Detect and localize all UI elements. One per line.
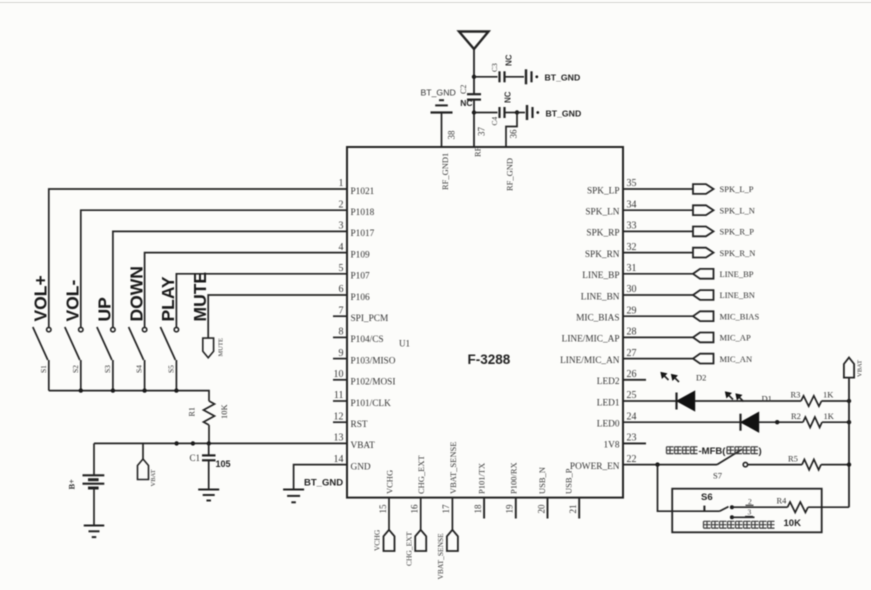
wire pin 3 to switch S3	[113, 231, 347, 327]
net tag pin 17	[447, 530, 458, 551]
LED D2	[623, 400, 677, 402]
capacitor C2	[467, 93, 481, 95]
svg-text:DOWN: DOWN	[126, 266, 146, 321]
switch S2 with button label VOL-	[79, 327, 83, 331]
svg-text:S3: S3	[103, 365, 112, 373]
bus junction	[79, 388, 83, 392]
svg-text:P101/CLK: P101/CLK	[351, 399, 392, 409]
svg-text:BT_GND: BT_GND	[421, 88, 456, 98]
svg-text:P102/MOSI: P102/MOSI	[351, 378, 396, 388]
input tag LINE_BN	[693, 290, 714, 300]
svg-text:MIC_AN: MIC_AN	[720, 354, 753, 364]
switch S3 with button label UP	[111, 327, 115, 331]
wire pin 30	[623, 294, 693, 296]
wire pin 6 to MUTE tag	[208, 295, 347, 338]
svg-text:): )	[759, 446, 762, 457]
svg-text:P1017: P1017	[351, 229, 375, 239]
svg-text:9: 9	[339, 348, 344, 359]
svg-text:S1: S1	[39, 365, 48, 373]
svg-text:5: 5	[339, 263, 344, 274]
svg-text:27: 27	[627, 348, 637, 359]
wire pin 17 to tag	[451, 498, 453, 530]
svg-text:R4: R4	[777, 496, 788, 506]
wire pin 14 to BT_GND	[294, 465, 347, 490]
wire pin 32	[623, 252, 693, 254]
wire pin 2 to switch S2	[81, 210, 347, 327]
svg-text:CHG_EXT: CHG_EXT	[404, 531, 413, 566]
svg-text:1K: 1K	[823, 390, 834, 400]
svg-text:18: 18	[473, 504, 483, 514]
wire R4 to VBAT rail	[808, 506, 849, 508]
wire R3 to VBAT rail	[822, 400, 850, 402]
resistor R1	[204, 401, 215, 425]
switch S6	[703, 506, 705, 512]
wire R2 to VBAT rail	[822, 421, 849, 423]
wire S7 to R5	[748, 464, 802, 466]
svg-text:R1: R1	[188, 407, 197, 416]
junction node pin36 branch	[515, 110, 519, 114]
svg-text:S5: S5	[166, 365, 175, 373]
input tag LINE_BP	[693, 269, 714, 279]
svg-text:MIC_BIAS: MIC_BIAS	[720, 311, 760, 321]
svg-text:BT_GND: BT_GND	[546, 108, 582, 118]
output tag SPK_L_P	[693, 184, 714, 194]
svg-text:P104/CS: P104/CS	[351, 335, 384, 345]
svg-text:22: 22	[627, 454, 637, 465]
svg-text:SPK_LN: SPK_LN	[585, 208, 619, 218]
svg-text:105: 105	[216, 459, 231, 469]
S6 throw 3	[730, 515, 734, 519]
capacitor C4	[474, 112, 498, 114]
svg-text:36: 36	[509, 129, 519, 139]
capacitor C3	[474, 76, 498, 78]
S6 throw 2	[730, 505, 734, 509]
ground below C1	[198, 489, 219, 491]
svg-text:MIC_BIAS: MIC_BIAS	[576, 314, 619, 324]
svg-text:17: 17	[441, 504, 451, 514]
svg-text:4: 4	[339, 242, 344, 253]
resistor R2	[803, 417, 822, 427]
output tag SPK_L_N	[693, 205, 714, 215]
svg-text:NC: NC	[460, 98, 472, 108]
svg-text:LED2: LED2	[597, 377, 620, 387]
svg-text:10: 10	[334, 369, 344, 380]
wire D2 to R3	[695, 400, 802, 402]
svg-text:VCHG: VCHG	[385, 470, 395, 494]
VBAT rail wire	[848, 378, 850, 508]
svg-text:C4: C4	[490, 116, 499, 125]
net tag VBAT left	[142, 443, 144, 459]
wire pin 13 VBAT bus	[94, 442, 347, 444]
svg-text:PLAY: PLAY	[158, 276, 178, 321]
resistor R5	[802, 459, 821, 469]
wire pin 33	[623, 230, 693, 232]
svg-text:S4: S4	[135, 365, 144, 373]
switch S1 with button label VOL+	[47, 327, 51, 331]
svg-text:SPI_PCM: SPI_PCM	[351, 314, 389, 324]
wire R5 to VBAT rail	[821, 464, 849, 466]
svg-text:35: 35	[627, 178, 637, 189]
svg-text:C2: C2	[459, 85, 468, 94]
svg-text:D1: D1	[762, 394, 772, 404]
ground below battery	[84, 525, 105, 527]
svg-text:23: 23	[627, 433, 637, 444]
svg-text:VBAT: VBAT	[351, 441, 376, 451]
antenna	[459, 32, 489, 50]
svg-text:LINE_BP: LINE_BP	[582, 271, 619, 281]
resistor R4	[788, 502, 809, 512]
wire stub pin 9	[333, 358, 347, 360]
svg-text:8: 8	[339, 327, 344, 338]
net tag pin 16	[415, 530, 426, 551]
input tag MIC_AN	[693, 354, 714, 364]
svg-text:LINE_BN: LINE_BN	[720, 290, 755, 300]
svg-text:LINE/MIC_AN: LINE/MIC_AN	[560, 356, 620, 366]
wire pin 28	[623, 336, 693, 338]
battery B+	[83, 474, 105, 476]
wire pin 36 jog	[506, 113, 517, 148]
input tag MIC_BIAS	[693, 311, 714, 321]
wire stub pin 12	[333, 421, 347, 423]
svg-text:P1021: P1021	[351, 187, 375, 197]
svg-text:P100/RX: P100/RX	[508, 462, 518, 494]
svg-text:P107: P107	[351, 272, 370, 282]
switch common bus wire	[49, 391, 209, 401]
svg-text:3: 3	[339, 221, 344, 232]
input tag MIC_AP	[693, 333, 714, 343]
svg-text:1V8: 1V8	[603, 441, 619, 451]
svg-text:SPK_R_P: SPK_R_P	[720, 227, 755, 237]
svg-text:P106: P106	[351, 293, 370, 303]
svg-text:14: 14	[334, 454, 344, 465]
svg-text:2: 2	[339, 199, 344, 210]
svg-text:USB_P: USB_P	[564, 468, 574, 494]
svg-text:F-3288: F-3288	[468, 352, 511, 367]
wire pin 22 POWER_EN	[623, 464, 717, 466]
svg-text:LINE_BP: LINE_BP	[720, 269, 754, 279]
IC U1 F-3288 body	[347, 147, 623, 498]
svg-text:RF_GND1: RF_GND1	[440, 153, 450, 190]
net tag pin 15	[384, 530, 395, 551]
svg-text:R2: R2	[791, 411, 801, 421]
wire pin 15 to tag	[388, 498, 390, 530]
svg-text:SPK_L_N: SPK_L_N	[720, 205, 755, 215]
switch S7 pushbutton	[717, 449, 742, 464]
svg-text:USB_N: USB_N	[537, 467, 547, 494]
svg-text:13: 13	[334, 433, 344, 444]
svg-text:30: 30	[627, 284, 637, 295]
svg-text:VBAT: VBAT	[150, 469, 157, 486]
svg-text:SPK_L_P: SPK_L_P	[720, 184, 754, 194]
wire stub pin 18	[483, 498, 485, 519]
svg-text:P1018: P1018	[351, 208, 375, 218]
wire pin 35	[623, 188, 693, 190]
wire pin 27	[623, 358, 693, 360]
svg-text:7: 7	[339, 305, 344, 316]
wire stub pin 20	[547, 498, 549, 519]
svg-text:BT_GND: BT_GND	[545, 73, 581, 83]
svg-text:10K: 10K	[219, 404, 229, 420]
svg-text:15: 15	[378, 504, 388, 514]
wire pin 4 to switch S4	[145, 253, 347, 328]
svg-text:VBAT_SENSE: VBAT_SENSE	[448, 442, 458, 494]
svg-text:11: 11	[334, 390, 344, 401]
junction antenna node	[472, 75, 476, 79]
svg-text:24: 24	[627, 411, 637, 422]
svg-text:26: 26	[627, 369, 637, 380]
svg-text:P109: P109	[351, 250, 370, 260]
wire pin22 down to S6	[658, 465, 720, 512]
svg-text:3: 3	[748, 508, 752, 517]
svg-text:S6: S6	[701, 492, 713, 503]
power symbol BT_GND top row2	[526, 105, 528, 120]
wire pin 16 to tag	[420, 498, 422, 530]
svg-text:SPK_LP: SPK_LP	[587, 186, 620, 196]
svg-text:VOL-: VOL-	[63, 280, 83, 322]
svg-text:NC: NC	[505, 54, 514, 66]
wire pin 1 to switch S1	[49, 189, 347, 327]
svg-text:6: 6	[339, 284, 344, 295]
svg-text:U1: U1	[399, 339, 410, 349]
svg-text:38: 38	[447, 130, 457, 140]
wire pin 29	[623, 315, 693, 317]
svg-text:VBAT: VBAT	[857, 360, 864, 377]
resistor R3	[801, 396, 822, 406]
junction dots on VBAT bus	[174, 441, 178, 445]
svg-text:LINE/MIC_AP: LINE/MIC_AP	[562, 335, 620, 345]
svg-text:RF: RF	[473, 146, 483, 157]
svg-text:POWER_EN: POWER_EN	[570, 462, 620, 472]
svg-text:19: 19	[505, 504, 515, 514]
svg-text:21: 21	[568, 505, 578, 514]
svg-text:S7: S7	[713, 471, 722, 481]
net tag MUTE	[203, 338, 214, 358]
svg-text:VCHG: VCHG	[373, 529, 382, 551]
ground BT_GND at pin 14	[283, 489, 304, 491]
svg-text:VOL+: VOL+	[31, 275, 51, 321]
svg-text:31: 31	[627, 263, 637, 274]
svg-text:29: 29	[627, 305, 637, 316]
battery branch corner	[93, 443, 95, 475]
svg-text:CHG_EXT: CHG_EXT	[416, 454, 426, 494]
svg-text:37: 37	[477, 127, 487, 137]
svg-text:-MFB(: -MFB(	[699, 446, 727, 457]
svg-text:SPK_RN: SPK_RN	[585, 250, 620, 260]
bus junction	[111, 388, 115, 392]
wire stub pin 26 LED2	[623, 379, 646, 381]
wire stub pin 10	[333, 379, 347, 381]
output tag SPK_R_P	[693, 227, 714, 237]
wire stub pin 8	[333, 336, 347, 338]
capacitor C1	[202, 454, 216, 456]
svg-text:MUTE: MUTE	[218, 338, 225, 356]
svg-text:20: 20	[536, 504, 546, 514]
svg-text:SPK_RP: SPK_RP	[586, 229, 619, 239]
svg-text:RST: RST	[351, 420, 368, 430]
svg-text:R5: R5	[788, 454, 798, 464]
dashed box S6 circuit	[672, 489, 822, 533]
svg-text:2: 2	[748, 497, 752, 506]
svg-text:R3: R3	[791, 390, 801, 400]
svg-text:P101/TX: P101/TX	[477, 463, 487, 494]
svg-text:LED1: LED1	[597, 398, 620, 408]
svg-text:12: 12	[334, 411, 344, 422]
svg-text:C3: C3	[490, 63, 499, 72]
svg-text:P103/MISO: P103/MISO	[351, 356, 396, 366]
svg-text:S2: S2	[71, 365, 80, 373]
top faint border line	[0, 2, 871, 4]
svg-text:1: 1	[339, 178, 344, 189]
bus junction	[174, 388, 178, 392]
svg-text:MUTE: MUTE	[190, 272, 210, 322]
svg-text:SPK_R_N: SPK_R_N	[720, 248, 756, 258]
switch S4 with button label DOWN	[142, 327, 146, 331]
svg-text:34: 34	[627, 199, 637, 210]
svg-text:GND: GND	[351, 462, 371, 472]
svg-text:MIC_AP: MIC_AP	[720, 333, 751, 343]
wire pin 5 to switch S5	[176, 274, 347, 328]
LED D1	[623, 421, 741, 423]
wire pin 31	[623, 273, 693, 275]
wire stub pin 23 1V8	[623, 442, 646, 444]
svg-text:28: 28	[627, 327, 637, 338]
svg-text:33: 33	[627, 221, 637, 232]
svg-text:D2: D2	[696, 373, 706, 383]
net tag VBAT right	[844, 358, 854, 378]
bus junction	[142, 388, 146, 392]
svg-text:1K: 1K	[824, 411, 835, 421]
svg-text:BT_GND: BT_GND	[304, 478, 343, 489]
switch S5 with button label PLAY	[174, 327, 178, 331]
label key-power-on MFB	[667, 447, 674, 454]
svg-text:B+: B+	[67, 479, 77, 490]
svg-text:UP: UP	[95, 297, 115, 322]
wire stub pin 19	[515, 498, 517, 519]
wire stub pin 21	[578, 498, 580, 519]
wire stub pin 7	[333, 315, 347, 317]
svg-text:16: 16	[410, 504, 420, 514]
wire pin 34	[623, 209, 693, 211]
wire stub pin 11	[333, 400, 347, 402]
svg-text:LED0: LED0	[597, 420, 620, 430]
output tag SPK_R_N	[693, 248, 714, 258]
svg-text:VBAT_SENSE: VBAT_SENSE	[436, 533, 445, 580]
wire D1 to R2	[759, 421, 804, 423]
svg-text:RF_GND: RF_GND	[505, 158, 515, 191]
wire to BT_GND row2	[517, 112, 525, 114]
svg-text:10K: 10K	[784, 518, 802, 529]
svg-text:LINE_BN: LINE_BN	[581, 292, 620, 302]
svg-text:25: 25	[627, 390, 637, 401]
svg-text:C1: C1	[190, 453, 201, 463]
label two-pin toggle switch power	[704, 521, 711, 528]
svg-text:32: 32	[627, 242, 637, 253]
svg-text:NC: NC	[504, 91, 513, 103]
power symbol BT_GND top row1	[525, 69, 527, 84]
